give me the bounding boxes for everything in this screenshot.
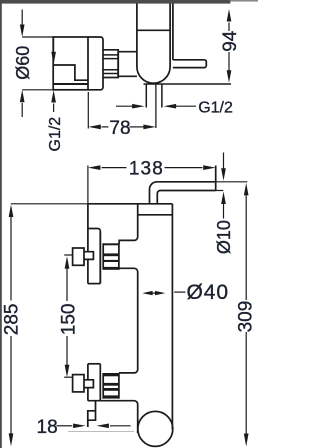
svg-text:150: 150 bbox=[59, 303, 80, 335]
svg-text:G1/2: G1/2 bbox=[198, 99, 233, 116]
svg-text:78: 78 bbox=[109, 118, 130, 139]
svg-text:18: 18 bbox=[37, 417, 58, 438]
svg-text:Ø40: Ø40 bbox=[187, 281, 229, 304]
svg-text:285: 285 bbox=[1, 303, 22, 335]
svg-text:G1/2: G1/2 bbox=[47, 117, 64, 152]
svg-text:Ø10: Ø10 bbox=[214, 220, 234, 254]
svg-text:94: 94 bbox=[220, 30, 241, 52]
svg-text:309: 309 bbox=[235, 301, 256, 333]
svg-text:Ø60: Ø60 bbox=[13, 46, 33, 80]
svg-text:138: 138 bbox=[129, 158, 164, 179]
